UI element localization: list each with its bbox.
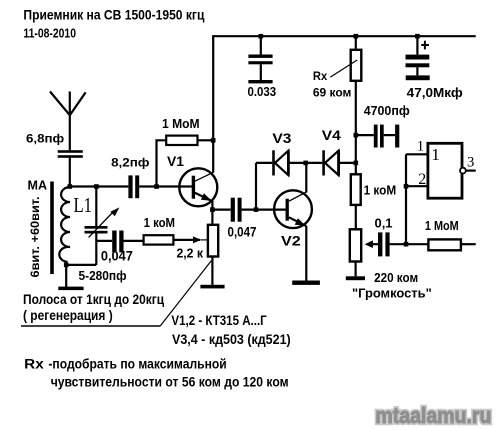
svg-text:V3,4 - кд503 (кд521): V3,4 - кд503 (кд521) [172, 332, 291, 347]
svg-text:L1: L1 [74, 193, 93, 217]
svg-text:V1,2 - КТ315 А...Г: V1,2 - КТ315 А...Г [171, 313, 267, 328]
svg-text:-подобрать по максимальной: -подобрать по максимальной [48, 356, 226, 371]
svg-text:0,1: 0,1 [375, 217, 393, 231]
svg-text:2: 2 [418, 171, 426, 188]
svg-text:47,0Мкф: 47,0Мкф [407, 85, 463, 100]
svg-text:0.033: 0.033 [248, 84, 277, 99]
svg-text:V2: V2 [281, 234, 301, 249]
svg-text:6,8пф: 6,8пф [26, 132, 64, 146]
svg-text:"Громкость": "Громкость" [352, 285, 432, 300]
svg-text:1 МоМ: 1 МоМ [425, 218, 459, 233]
svg-text:V3: V3 [272, 131, 291, 146]
svg-text:1 коМ: 1 коМ [364, 182, 397, 197]
svg-text:Rx: Rx [313, 69, 327, 83]
svg-text:0,047: 0,047 [101, 249, 133, 264]
svg-text:Приемник на СВ 1500-1950 кгц: Приемник на СВ 1500-1950 кгц [23, 7, 204, 23]
svg-text:mtaalamu.ru: mtaalamu.ru [375, 403, 491, 428]
svg-text:0,047: 0,047 [228, 225, 257, 240]
svg-text:МА: МА [28, 178, 48, 193]
svg-text:чувствительности от 56 ком д: чувствительности от 56 ком до 120 ком [51, 374, 289, 389]
svg-text:4700пф: 4700пф [364, 103, 410, 118]
svg-text:1: 1 [431, 145, 440, 164]
svg-text:1: 1 [417, 139, 424, 155]
svg-text:3: 3 [467, 155, 474, 171]
svg-text:1 МоМ: 1 МоМ [162, 116, 200, 131]
svg-text:11-08-2010: 11-08-2010 [23, 25, 76, 40]
svg-text:8,2пф: 8,2пф [111, 155, 150, 169]
svg-text:69 ком: 69 ком [313, 86, 352, 100]
svg-text:V1: V1 [167, 154, 185, 169]
svg-text:2,2 к: 2,2 к [177, 245, 204, 260]
svg-text:Rx: Rx [24, 357, 44, 372]
svg-text:5-280пф: 5-280пф [79, 268, 127, 283]
svg-text:6вит. +60вит.: 6вит. +60вит. [28, 197, 42, 278]
svg-text:1 коМ: 1 коМ [144, 215, 175, 230]
svg-text:( регенерация ): ( регенерация ) [23, 308, 113, 323]
svg-text:V4: V4 [322, 128, 342, 143]
svg-text:220 ком: 220 ком [374, 270, 418, 285]
svg-text:Полоса от 1кгц до 20кгц: Полоса от 1кгц до 20кгц [23, 291, 164, 307]
